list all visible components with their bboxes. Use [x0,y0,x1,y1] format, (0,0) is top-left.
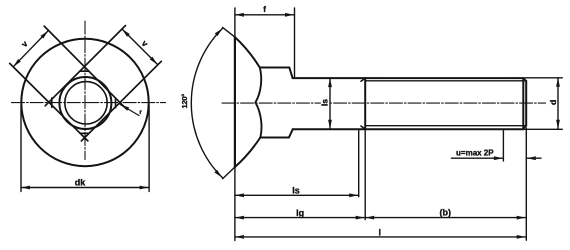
svg-text:v: v [140,38,151,49]
head bottom curve [235,138,260,168]
dimension f line [235,14,295,16]
120 degree angle arc [191,28,222,177]
corner cut S [80,132,89,134]
svg-text:d: d [548,100,558,105]
square neck side SE with v extension arm [81,61,161,141]
neck-shank chamfer bottom [289,129,293,137]
thread major top [365,77,523,79]
svg-text:r: r [139,109,142,116]
centerline vertical [84,21,86,160]
dimension u extension left [502,130,504,162]
svg-text:v: v [19,38,30,49]
dimension v (top-right) [122,29,158,65]
dimension ls line [235,194,359,196]
corner cut E [115,98,117,107]
dimension d line [557,78,559,130]
dimension b line [365,217,526,219]
angle leg top [223,27,235,37]
angle leg bottom [223,167,235,179]
extension line through head face (f, ls, lg, l dims) [234,8,236,241]
svg-text:ls: ls [320,99,330,106]
dimension l line [235,236,526,238]
neck-shank chamfer top [289,68,292,79]
svg-text:lg: lg [296,208,304,218]
dimension ls vertical (shank) [329,78,331,129]
svg-text:(b): (b) [440,207,452,217]
thread root top [365,80,526,82]
thread start chamfer bottom [361,126,365,129]
svg-text:l: l [379,228,382,238]
centerline axis [222,102,546,104]
shank bottom line [293,128,365,130]
inner thread circle [65,82,107,124]
dimension u line right [526,157,541,159]
dimension u line left [452,157,504,159]
thread end chamfer bottom [523,126,526,130]
thread start chamfer top [361,78,365,81]
svg-text:dk: dk [75,177,86,187]
square neck side NW with v extension arm [45,26,125,106]
svg-text:u=max 2P: u=max 2P [456,149,494,158]
shank circle [59,77,111,129]
svg-text:120°: 120° [180,94,189,109]
thread major bottom [365,128,523,130]
dimension d extension top [525,77,563,79]
head face outline [234,37,236,167]
dimension v (top-left) [13,30,48,66]
corner cut W [51,98,53,107]
square neck side SW with v extension arm [10,63,88,140]
shank top line [293,77,366,79]
dimension dk extension left [20,105,22,192]
square neck side NE with v extension arm [44,26,124,106]
corner cut N [80,70,89,72]
dimension lg extension right [364,129,366,219]
thread end face [525,81,527,126]
cone-flat intersection curve top [255,68,261,103]
head top curve [235,37,260,67]
dimension dk extension right [148,105,150,192]
dimension d extension bottom [525,128,563,130]
square neck top line [260,67,290,69]
centerline horizontal [12,102,166,104]
dimension u extension right [525,128,527,240]
svg-text:f: f [263,5,266,14]
thread end chamfer top [523,78,526,81]
dimension f extension right [294,8,296,78]
leader r [120,104,139,115]
shank end vertical [364,78,366,129]
head circle dk [21,39,148,166]
dimension ls extension right [358,129,360,197]
square neck bottom line [260,137,289,139]
cone-flat intersection curve bottom [255,103,261,138]
dimension lg line [235,217,365,219]
thread root bottom [365,125,526,127]
dimension dk line [21,187,149,189]
thread end vertical major [522,78,524,129]
svg-text:ls: ls [292,185,300,195]
